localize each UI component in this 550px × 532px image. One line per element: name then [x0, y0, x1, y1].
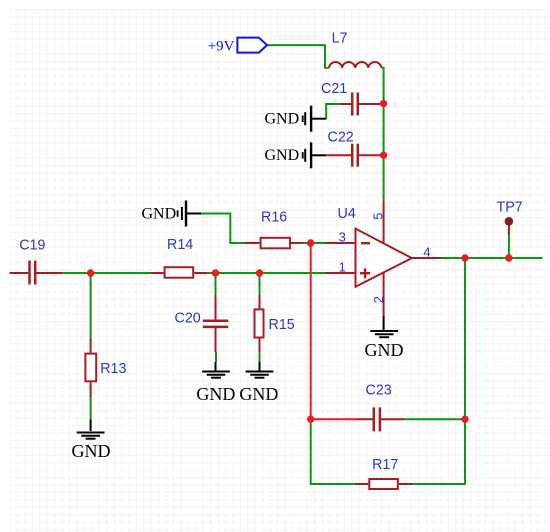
svg-text:R15: R15 [269, 317, 295, 333]
svg-text:GND: GND [142, 206, 177, 223]
svg-text:R13: R13 [100, 361, 126, 377]
svg-text:5: 5 [371, 213, 386, 220]
svg-text:C21: C21 [321, 81, 347, 97]
svg-text:3: 3 [339, 230, 346, 245]
svg-text:L7: L7 [332, 31, 348, 47]
svg-text:R16: R16 [261, 210, 287, 226]
svg-text:GND: GND [365, 340, 404, 360]
svg-text:GND: GND [196, 384, 235, 404]
svg-text:GND: GND [265, 110, 300, 127]
svg-text:C22: C22 [328, 130, 354, 146]
svg-text:C23: C23 [366, 383, 392, 399]
svg-text:U4: U4 [338, 206, 356, 222]
svg-text:GND: GND [239, 384, 278, 404]
svg-text:4: 4 [423, 245, 430, 260]
svg-text:R14: R14 [167, 237, 193, 253]
svg-text:+9V: +9V [208, 38, 235, 54]
svg-text:TP7: TP7 [497, 200, 523, 216]
svg-text:1: 1 [339, 260, 346, 275]
svg-text:C20: C20 [175, 310, 201, 326]
svg-text:R17: R17 [372, 457, 398, 473]
svg-text:GND: GND [265, 147, 300, 164]
svg-text:C19: C19 [19, 238, 45, 254]
svg-text:2: 2 [371, 296, 386, 303]
svg-text:GND: GND [72, 441, 111, 461]
